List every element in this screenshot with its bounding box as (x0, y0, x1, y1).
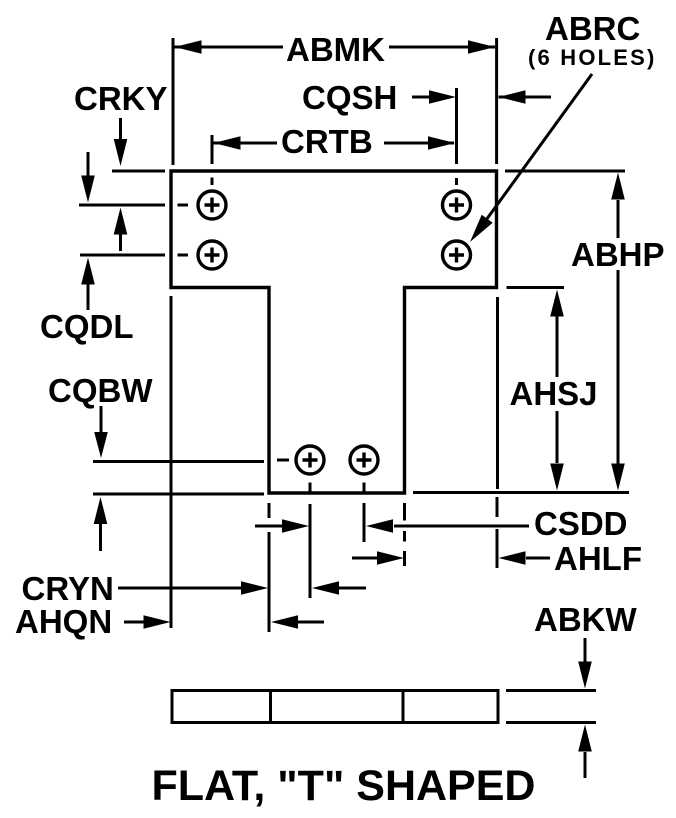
dimension line ABHP lower shaft (617, 270, 620, 464)
arrowhead CQBW up (94, 497, 108, 524)
dimension line ABMK (175, 46, 496, 49)
extension line bar top right (506, 689, 596, 692)
extension line right hole column top (455, 88, 458, 164)
side view divider right (402, 691, 405, 723)
extension tick y461 left (93, 460, 264, 463)
hole H2 (198, 241, 226, 269)
extension tick y205 left (79, 204, 165, 207)
extension line stem hole2 column below (363, 503, 366, 542)
centerline dash below H6 (363, 483, 366, 492)
arrowhead ABKW up (578, 725, 592, 752)
arrowhead CSDD right (366, 519, 393, 533)
arrowhead CRYN right (241, 581, 268, 595)
svg-text:FLAT, "T" SHAPED: FLAT, "T" SHAPED (152, 762, 536, 810)
centerline dash left of H5 (277, 459, 289, 462)
arrowhead AHQN left (271, 615, 298, 629)
hole H6 (350, 446, 378, 474)
hole H4 (443, 241, 471, 269)
arrowhead CQDL up (81, 258, 95, 285)
arrowhead CSDD left (282, 519, 309, 533)
svg-text:ABHP: ABHP (571, 236, 665, 273)
arrowhead CQBW down (94, 432, 108, 458)
side view divider left (269, 691, 272, 723)
extension tick y493 left (93, 493, 264, 496)
arrowhead ABMK right (468, 40, 495, 54)
dimension line CQSH (412, 96, 551, 99)
extension line stem-left below (268, 503, 271, 632)
dimension line CRYN left shaft (118, 587, 242, 590)
svg-text:AHSJ: AHSJ (510, 375, 598, 412)
centerline dash above H3 (455, 178, 458, 185)
extension line right edge mid (496, 297, 499, 489)
centerline dash below H5 (309, 483, 312, 492)
svg-text:ABRC: ABRC (545, 10, 640, 47)
dimension line CRKY upper shaft (119, 118, 122, 140)
dimension line CRYN right shaft (339, 587, 366, 590)
dimension line AHQN left shaft (124, 621, 145, 624)
dimension line ABKW upper shaft (584, 638, 587, 662)
dimension line CQBW upper shaft (100, 406, 103, 432)
arrowhead ABRC leader (470, 215, 493, 242)
dimension line ABKW lower shaft (584, 752, 587, 778)
hole H5 (296, 446, 324, 474)
dimension line CQDL upper shaft (87, 152, 90, 177)
extension line stem-right below (403, 503, 406, 566)
dimension line CSDD right shaft (394, 525, 529, 528)
arrowhead CRTB right (428, 136, 455, 150)
extension line bottom edge right (413, 491, 629, 494)
arrowhead ABHP up (611, 173, 625, 200)
hole H3 (443, 191, 471, 219)
arrowhead AHSJ up (550, 290, 564, 317)
extension line top edge right (505, 170, 625, 173)
extension line right edge below (496, 497, 499, 568)
arrowhead CRKY down (114, 139, 128, 166)
dimension line CRKY lower shaft (119, 234, 122, 251)
extension line shelf right (507, 286, 565, 289)
extension tick y255 left (80, 254, 165, 257)
svg-text:AHLF: AHLF (554, 540, 642, 577)
extension line left edge top (172, 38, 175, 165)
dimension line AHSJ lower shaft (556, 411, 559, 463)
leader line ABRC (481, 74, 592, 227)
svg-text:CQDL: CQDL (40, 308, 134, 345)
extension line stem hole1 column below (309, 504, 312, 598)
svg-text:AHQN: AHQN (15, 603, 112, 640)
svg-text:ABMK: ABMK (286, 31, 385, 68)
arrowhead CQSH right (429, 90, 456, 104)
side view bar outline (172, 691, 498, 723)
svg-text:(6 HOLES): (6 HOLES) (528, 45, 657, 70)
svg-text:CRKY: CRKY (74, 80, 168, 117)
dimension line AHQN right shaft (298, 621, 324, 624)
svg-text:CSDD: CSDD (534, 505, 628, 542)
centerline dash left of H2 (178, 254, 189, 257)
arrowhead CQDL down (81, 176, 95, 203)
extension line left edge below (170, 296, 173, 628)
svg-text:CQSH: CQSH (302, 79, 397, 116)
arrowhead AHLF right (499, 551, 526, 565)
dimension line CRTB (214, 142, 455, 145)
svg-text:ABKW: ABKW (534, 601, 637, 638)
dimension line CSDD left shaft (255, 525, 282, 528)
arrowhead ABKW down (578, 662, 592, 689)
dimension line AHLF left shaft (352, 557, 379, 560)
dimension line AHLF right shaft (526, 557, 550, 560)
dimension line CQDL lower shaft (87, 284, 90, 310)
arrowhead CRTB left (214, 136, 241, 150)
svg-text:CQBW: CQBW (48, 372, 153, 409)
dimension line AHSJ upper shaft (556, 316, 559, 377)
centerline dash left of H1 (178, 204, 189, 207)
arrowhead AHLF left (377, 551, 404, 565)
arrowhead CRKY up (114, 208, 128, 235)
centerline dash above H1 (211, 178, 214, 186)
extension tick y171 left (112, 170, 165, 173)
dimension line CQBW lower shaft (99, 524, 102, 551)
arrowhead ABMK left (175, 40, 202, 54)
extension line left hole column top (211, 135, 214, 164)
arrowhead CQSH outer (499, 90, 526, 104)
extension line bar bottom right (506, 721, 596, 724)
hole H1 (198, 191, 226, 219)
svg-text:CRYN: CRYN (22, 570, 114, 607)
T-shape outline (171, 171, 497, 493)
arrowhead ABHP down (611, 464, 625, 491)
arrowhead AHQN right (144, 615, 171, 629)
arrowhead AHSJ down (550, 464, 564, 491)
arrowhead CRYN left (312, 581, 339, 595)
extension line right edge top (495, 38, 498, 164)
svg-text:CRTB: CRTB (281, 123, 373, 160)
dimension line ABHP upper shaft (617, 200, 620, 238)
